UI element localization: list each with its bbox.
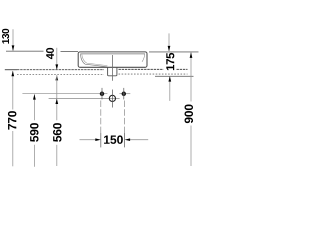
central hole crosshair vertical [111,90,113,108]
counter bottom dotted line [17,74,104,76]
dimension 590 line upper [33,94,35,120]
dimension label 40 [46,48,54,59]
basin inner left wall second curve [82,54,108,65]
dimension label 150 [104,135,123,143]
right faucet hole ring [122,92,125,95]
counter top line solid left [5,69,17,71]
dimension 150 right arrow [125,138,131,141]
left faucet hole crosshair vertical [101,88,103,100]
dimension label 590 [30,123,38,142]
rim extension line mid segment [61,51,79,53]
dimension 175 up arrow [168,76,171,82]
dimension 770 line upper [12,71,14,109]
dimension label 770 [8,111,16,130]
drain cup below basin [108,67,117,76]
dimension 590 line lower [33,145,35,167]
basin outer profile [78,52,147,67]
hole extension dashed line left [100,101,102,134]
dimension 150 left leader [80,139,99,141]
basin inner rim line [80,53,145,55]
dimension 175 down arrow [168,46,171,52]
dimension 560 line upper [56,75,58,120]
rim extension line right segment [149,51,199,53]
dimension 900 line lower [190,126,192,167]
dimension 40 upper line [56,48,58,70]
dimension label 175 [166,53,174,70]
counter top dotted line right [119,68,164,70]
counter bottom dotted line right [119,73,188,75]
dimension 900 up arrow [190,52,193,58]
basin inner left wall curve [81,54,108,67]
dimension 40 down arrow [55,64,58,70]
central hole centre line B [49,97,120,99]
dimension 175 upper line [168,33,170,51]
dimension 770 up arrow [11,71,14,77]
hole extension solid terminal right [124,133,126,147]
central hole circle [109,95,115,101]
dimension label 130 [2,29,9,44]
left faucet hole ring [101,92,104,95]
dimension 590 up arrow [33,94,36,100]
dimension label 900 [185,104,193,123]
hole centre line A right segment [119,93,130,95]
dimension 40 lower up arrow [55,75,58,81]
right faucet hole crosshair vertical [123,88,125,100]
dimension label 560 [53,123,61,142]
dimension 130 line [12,29,14,50]
drain axis line [111,55,113,81]
hole centre line A [22,93,107,95]
dimension 175 lower line [169,77,171,101]
counter top dotted line [17,69,104,71]
dimension 560 up arrow at line B [55,99,58,105]
siphon reference solid line right [155,75,194,77]
hole extension dashed line right [124,101,126,134]
dimension 770 line lower [12,131,14,166]
basin inner right wall hint [142,54,145,62]
dimension 130 arrow [12,45,15,51]
hole extension solid terminal left [100,133,102,147]
dimension 150 right leader [127,139,148,141]
dimension 900 line upper [190,53,192,102]
dimension 150 left arrow [95,138,101,141]
rim extension line left segment [6,50,44,52]
dimension 560 line lower [56,145,58,166]
